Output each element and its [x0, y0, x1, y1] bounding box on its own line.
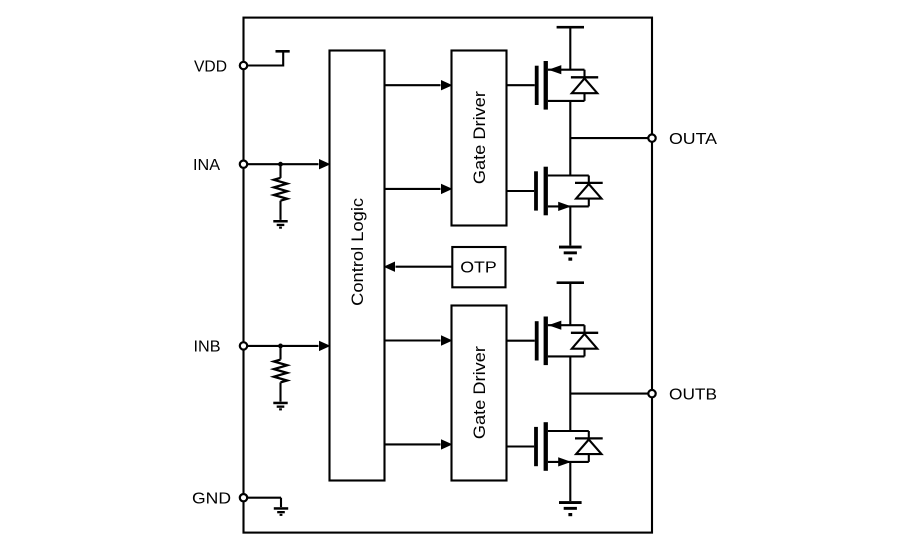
VDD rail terminal	[276, 50, 290, 53]
node OUTA wire	[570, 137, 647, 139]
svg-text:GND: GND	[192, 491, 231, 508]
svg-text:OTP: OTP	[460, 260, 497, 277]
wire Control Logic to Gate Driver A (high)	[385, 80, 453, 90]
svg-text:VDD: VDD	[194, 58, 227, 75]
outer IC boundary	[244, 18, 653, 533]
wire GND lead	[244, 498, 282, 507]
wire Control Logic to Gate Driver A (low)	[385, 184, 453, 194]
label INA	[193, 157, 220, 174]
block Control Logic U1	[330, 51, 385, 481]
pin OUTA	[648, 134, 655, 141]
wire INA to Control Logic	[244, 159, 331, 169]
svg-text:Gate Driver: Gate Driver	[470, 91, 489, 184]
svg-text:Control Logic: Control Logic	[348, 197, 367, 306]
svg-text:INA: INA	[193, 157, 220, 174]
ground (GND pin)	[274, 507, 288, 516]
junction node INB	[278, 344, 283, 349]
node OUTB wire	[570, 393, 647, 395]
label INB	[194, 339, 221, 356]
transistor Q4 (low side B)	[507, 422, 589, 471]
transistor Q2 (low side A)	[507, 167, 589, 216]
transistor Q3 (high side B)	[507, 317, 585, 366]
pin OUTB	[648, 390, 655, 397]
svg-text:INB: INB	[194, 339, 221, 356]
label VDD	[194, 58, 227, 75]
resistor R2	[274, 346, 287, 402]
VDD rail terminal (B bridge)	[557, 281, 584, 325]
body diode D1	[571, 70, 598, 101]
pin GND	[240, 494, 247, 501]
wire INB to Control Logic	[244, 341, 331, 351]
ground (R2)	[273, 402, 287, 411]
wire A switch node vertical	[569, 101, 571, 176]
resistor R1	[274, 164, 287, 220]
wire B switch node vertical	[569, 356, 571, 431]
junction node INA	[278, 162, 283, 167]
block Gate Driver B	[452, 306, 507, 481]
pin INB	[240, 342, 247, 349]
block Gate Driver A	[452, 51, 507, 226]
block OTP	[452, 247, 505, 287]
body diode D4	[575, 431, 603, 462]
wire OTP to Control Logic	[384, 262, 453, 272]
wire Control Logic to Gate Driver B (high)	[385, 335, 453, 345]
wire Control Logic to Gate Driver B (low)	[385, 439, 453, 449]
label OUTA	[669, 131, 717, 148]
wire Q4 source to ground	[569, 462, 571, 501]
svg-text:OUTA: OUTA	[669, 131, 717, 148]
body diode D2	[575, 176, 603, 207]
wire VDD lead	[244, 51, 284, 66]
svg-text:OUTB: OUTB	[669, 387, 717, 404]
transistor Q1 (high side A)	[507, 61, 585, 110]
body diode D3	[571, 325, 598, 356]
label GND	[192, 491, 231, 508]
ground (R1)	[273, 220, 287, 229]
pin VDD	[240, 62, 247, 69]
VDD rail terminal (A bridge)	[557, 26, 584, 70]
label OUTB	[669, 387, 717, 404]
ground (B bridge)	[559, 501, 582, 516]
wire Q2 source to ground	[569, 206, 571, 245]
pin INA	[240, 161, 247, 168]
svg-text:Gate Driver: Gate Driver	[470, 346, 489, 439]
ground (A bridge)	[559, 246, 582, 261]
